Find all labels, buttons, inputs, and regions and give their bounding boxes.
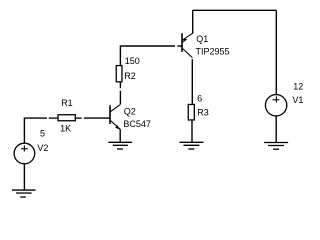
wire Q2 emitter to ground [119,129,121,142]
resistor R3 [188,104,194,120]
ground for Q2 emitter [108,142,132,149]
svg-text:BC547: BC547 [123,119,151,129]
voltage source V2 [14,143,35,164]
svg-text:V2: V2 [37,143,48,153]
ground for R3 [179,142,203,149]
wire V1 top drop [275,10,277,94]
pin Q1 base stub [177,45,182,47]
ground for V1 [264,143,288,150]
svg-text:5: 5 [40,129,45,139]
wire R3 bottom to ground [191,121,193,143]
svg-text:Q2: Q2 [124,107,136,117]
svg-text:V1: V1 [292,95,303,105]
transistor Q2 BC547 [109,104,120,129]
svg-text:12: 12 [293,82,303,92]
wire R2 bottom to Q2 collector [119,91,121,105]
svg-text:R2: R2 [124,71,136,81]
svg-text:6: 6 [197,94,202,104]
transistor Q1 TIP2955 [181,33,193,57]
wire R2 top corner to Q1 base [120,46,175,65]
wire V2 top to R1 [24,118,47,143]
svg-text:TIP2955: TIP2955 [196,46,230,56]
svg-text:Q1: Q1 [196,34,208,44]
wire top rail Q1 emitter to V1 [193,9,277,11]
ground for V2 [12,190,36,197]
voltage source V1 [265,95,286,116]
svg-text:1K: 1K [60,123,71,133]
resistor R1 [49,115,82,121]
wire R1 to Q2 base [84,117,110,119]
resistor R2 [116,66,122,89]
wire Q1 collector to R3 [191,59,193,104]
svg-text:150: 150 [125,56,140,66]
wire V1 bottom to ground [275,116,277,143]
wire V2 bottom to ground [23,164,25,190]
wire Q1 emitter leg drop [192,10,194,33]
svg-text:R3: R3 [197,108,209,118]
svg-text:R1: R1 [61,98,73,108]
